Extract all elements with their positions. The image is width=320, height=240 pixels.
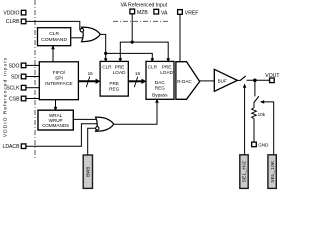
svg-text:REG: REG — [155, 86, 166, 91]
arrow FIFO to WRAL block — [54, 100, 58, 112]
wire LDACB to OR gate U2 — [26, 124, 98, 147]
svg-text:SEL_HIZ: SEL_HIZ — [242, 161, 248, 183]
svg-text:CLR: CLR — [49, 31, 59, 37]
wire SDI to FIFO — [26, 76, 40, 78]
arrow PRE LOAD into PRE REG — [119, 58, 123, 62]
svg-text:MZB: MZB — [137, 10, 148, 16]
block FIFO/SPI INTERFACE — [39, 62, 78, 100]
svg-text:LDACB: LDACB — [3, 144, 21, 150]
arrow CLR into DAC REG — [151, 58, 155, 62]
svg-text:SDO: SDO — [8, 63, 19, 69]
junction MZB node — [131, 41, 134, 44]
block WRAL WRUP COMMANDS — [38, 110, 73, 130]
block DAC REG — [146, 61, 174, 99]
wire SDO to FIFO — [26, 64, 40, 66]
junction CLR node — [104, 52, 107, 55]
region boundary: VA dash-dot horizontal — [113, 20, 169, 22]
svg-text:CLRB: CLRB — [6, 19, 20, 25]
block CLR COMMAND — [38, 28, 71, 46]
pin SDO — [8, 63, 25, 69]
svg-text:GND: GND — [258, 143, 269, 148]
wire CLRB to OR gate U1 inverted input — [26, 21, 80, 30]
arrow Bypass into DAC REG — [155, 99, 159, 103]
pin GND — [252, 142, 269, 148]
wire CLR COMMAND to OR gate U1 — [71, 37, 85, 39]
pin VOUT — [265, 73, 279, 83]
svg-text:VA Referenced Input: VA Referenced Input — [121, 3, 168, 9]
junction VOUT node — [253, 79, 257, 83]
svg-text:PRE: PRE — [115, 64, 125, 69]
svg-text:SCLK: SCLK — [6, 86, 20, 92]
wire SEL_10K control — [260, 100, 274, 155]
svg-text:10k: 10k — [258, 112, 266, 117]
wire WRAL to OR gate U2 — [73, 118, 98, 120]
pin SCLK — [6, 85, 26, 91]
block R-DAC — [176, 62, 200, 100]
svg-text:COMMAND: COMMAND — [41, 37, 67, 43]
pin MZB — [130, 9, 148, 16]
wire VOUT node down to switch SW2 — [254, 80, 256, 96]
pin VA — [154, 9, 168, 16]
svg-text:FIFO/: FIFO/ — [53, 70, 66, 76]
wire CLR net: U1 output to CLR inputs — [100, 34, 152, 58]
block PRE REG — [100, 61, 128, 96]
box BWB — [83, 155, 92, 188]
label: VA Referenced Input — [121, 3, 168, 9]
svg-text:16: 16 — [135, 71, 141, 76]
wire SW1 to VOUT — [247, 79, 270, 81]
svg-text:16: 16 — [88, 71, 94, 76]
svg-text:LOAD: LOAD — [113, 70, 126, 75]
pin LDACB — [3, 144, 26, 150]
wire SCLK to FIFO — [26, 87, 40, 89]
svg-text:SDI: SDI — [11, 74, 20, 80]
pin CSB — [9, 96, 26, 102]
svg-text:CLR: CLR — [148, 64, 158, 69]
svg-text:REG: REG — [109, 87, 120, 92]
box SEL_HIZ — [240, 155, 248, 189]
svg-text:COMMANDS: COMMANDS — [42, 123, 69, 128]
svg-text:SEL_10K: SEL_10K — [270, 160, 276, 183]
or-gate U2 (Bypass) — [96, 117, 114, 131]
svg-text:INTERFACE: INTERFACE — [45, 81, 73, 87]
svg-text:Bypass: Bypass — [152, 93, 168, 98]
wire U2 output to DAC REG Bypass input — [114, 102, 157, 124]
pin CLRB — [6, 19, 26, 25]
svg-text:DAC: DAC — [155, 80, 166, 85]
wire BWB to OR gate U2 inverted input — [88, 128, 96, 155]
or-gate U1 (CLR) — [80, 27, 100, 42]
region boundary: VDDIO dash-dot vertical — [34, 0, 36, 160]
pin SDI — [11, 74, 26, 80]
svg-text:CSB: CSB — [9, 96, 20, 102]
op-amp BUF — [214, 69, 237, 91]
wire VREF to R-DAC — [179, 14, 181, 61]
svg-text:SPI: SPI — [55, 76, 63, 82]
wire BUF to switch SW1 — [237, 79, 241, 81]
switch SW2 (SEL_10K) blade — [254, 96, 259, 102]
resistor 10k — [252, 102, 266, 142]
label: VDDIO Referenced Inputs — [3, 57, 9, 137]
arrow PRE LOAD into DAC REG — [166, 58, 170, 62]
wire CSB to FIFO — [26, 98, 40, 100]
svg-text:R-DAC: R-DAC — [177, 79, 192, 84]
svg-text:PRE: PRE — [162, 64, 172, 69]
svg-text:LOAD: LOAD — [160, 70, 173, 75]
svg-text:VA: VA — [161, 10, 168, 16]
pin VDDIO — [3, 10, 26, 16]
svg-text:CLR: CLR — [102, 64, 112, 69]
svg-text:BUF: BUF — [218, 78, 227, 83]
arrow CLR into PRE REG — [104, 58, 108, 62]
svg-text:VREF: VREF — [185, 11, 199, 17]
box SEL_10K — [268, 155, 276, 189]
switch SW1 (SEL_HIZ) blade — [240, 76, 246, 81]
pin VREF — [178, 10, 199, 17]
arrow FIFO to CLR COMMAND — [51, 45, 55, 62]
svg-text:BWB: BWB — [86, 167, 91, 177]
wire MZB to PRE LOAD inputs — [120, 14, 168, 59]
wire SEL_HIZ control — [243, 84, 247, 156]
svg-text:VDDIO: VDDIO — [3, 10, 19, 16]
svg-text:PRE: PRE — [109, 81, 119, 86]
wire R-DAC to BUF — [200, 80, 215, 82]
bus 16 PRE REG to DAC REG — [128, 71, 146, 87]
bus 16 FIFO to PRE REG — [78, 71, 100, 87]
